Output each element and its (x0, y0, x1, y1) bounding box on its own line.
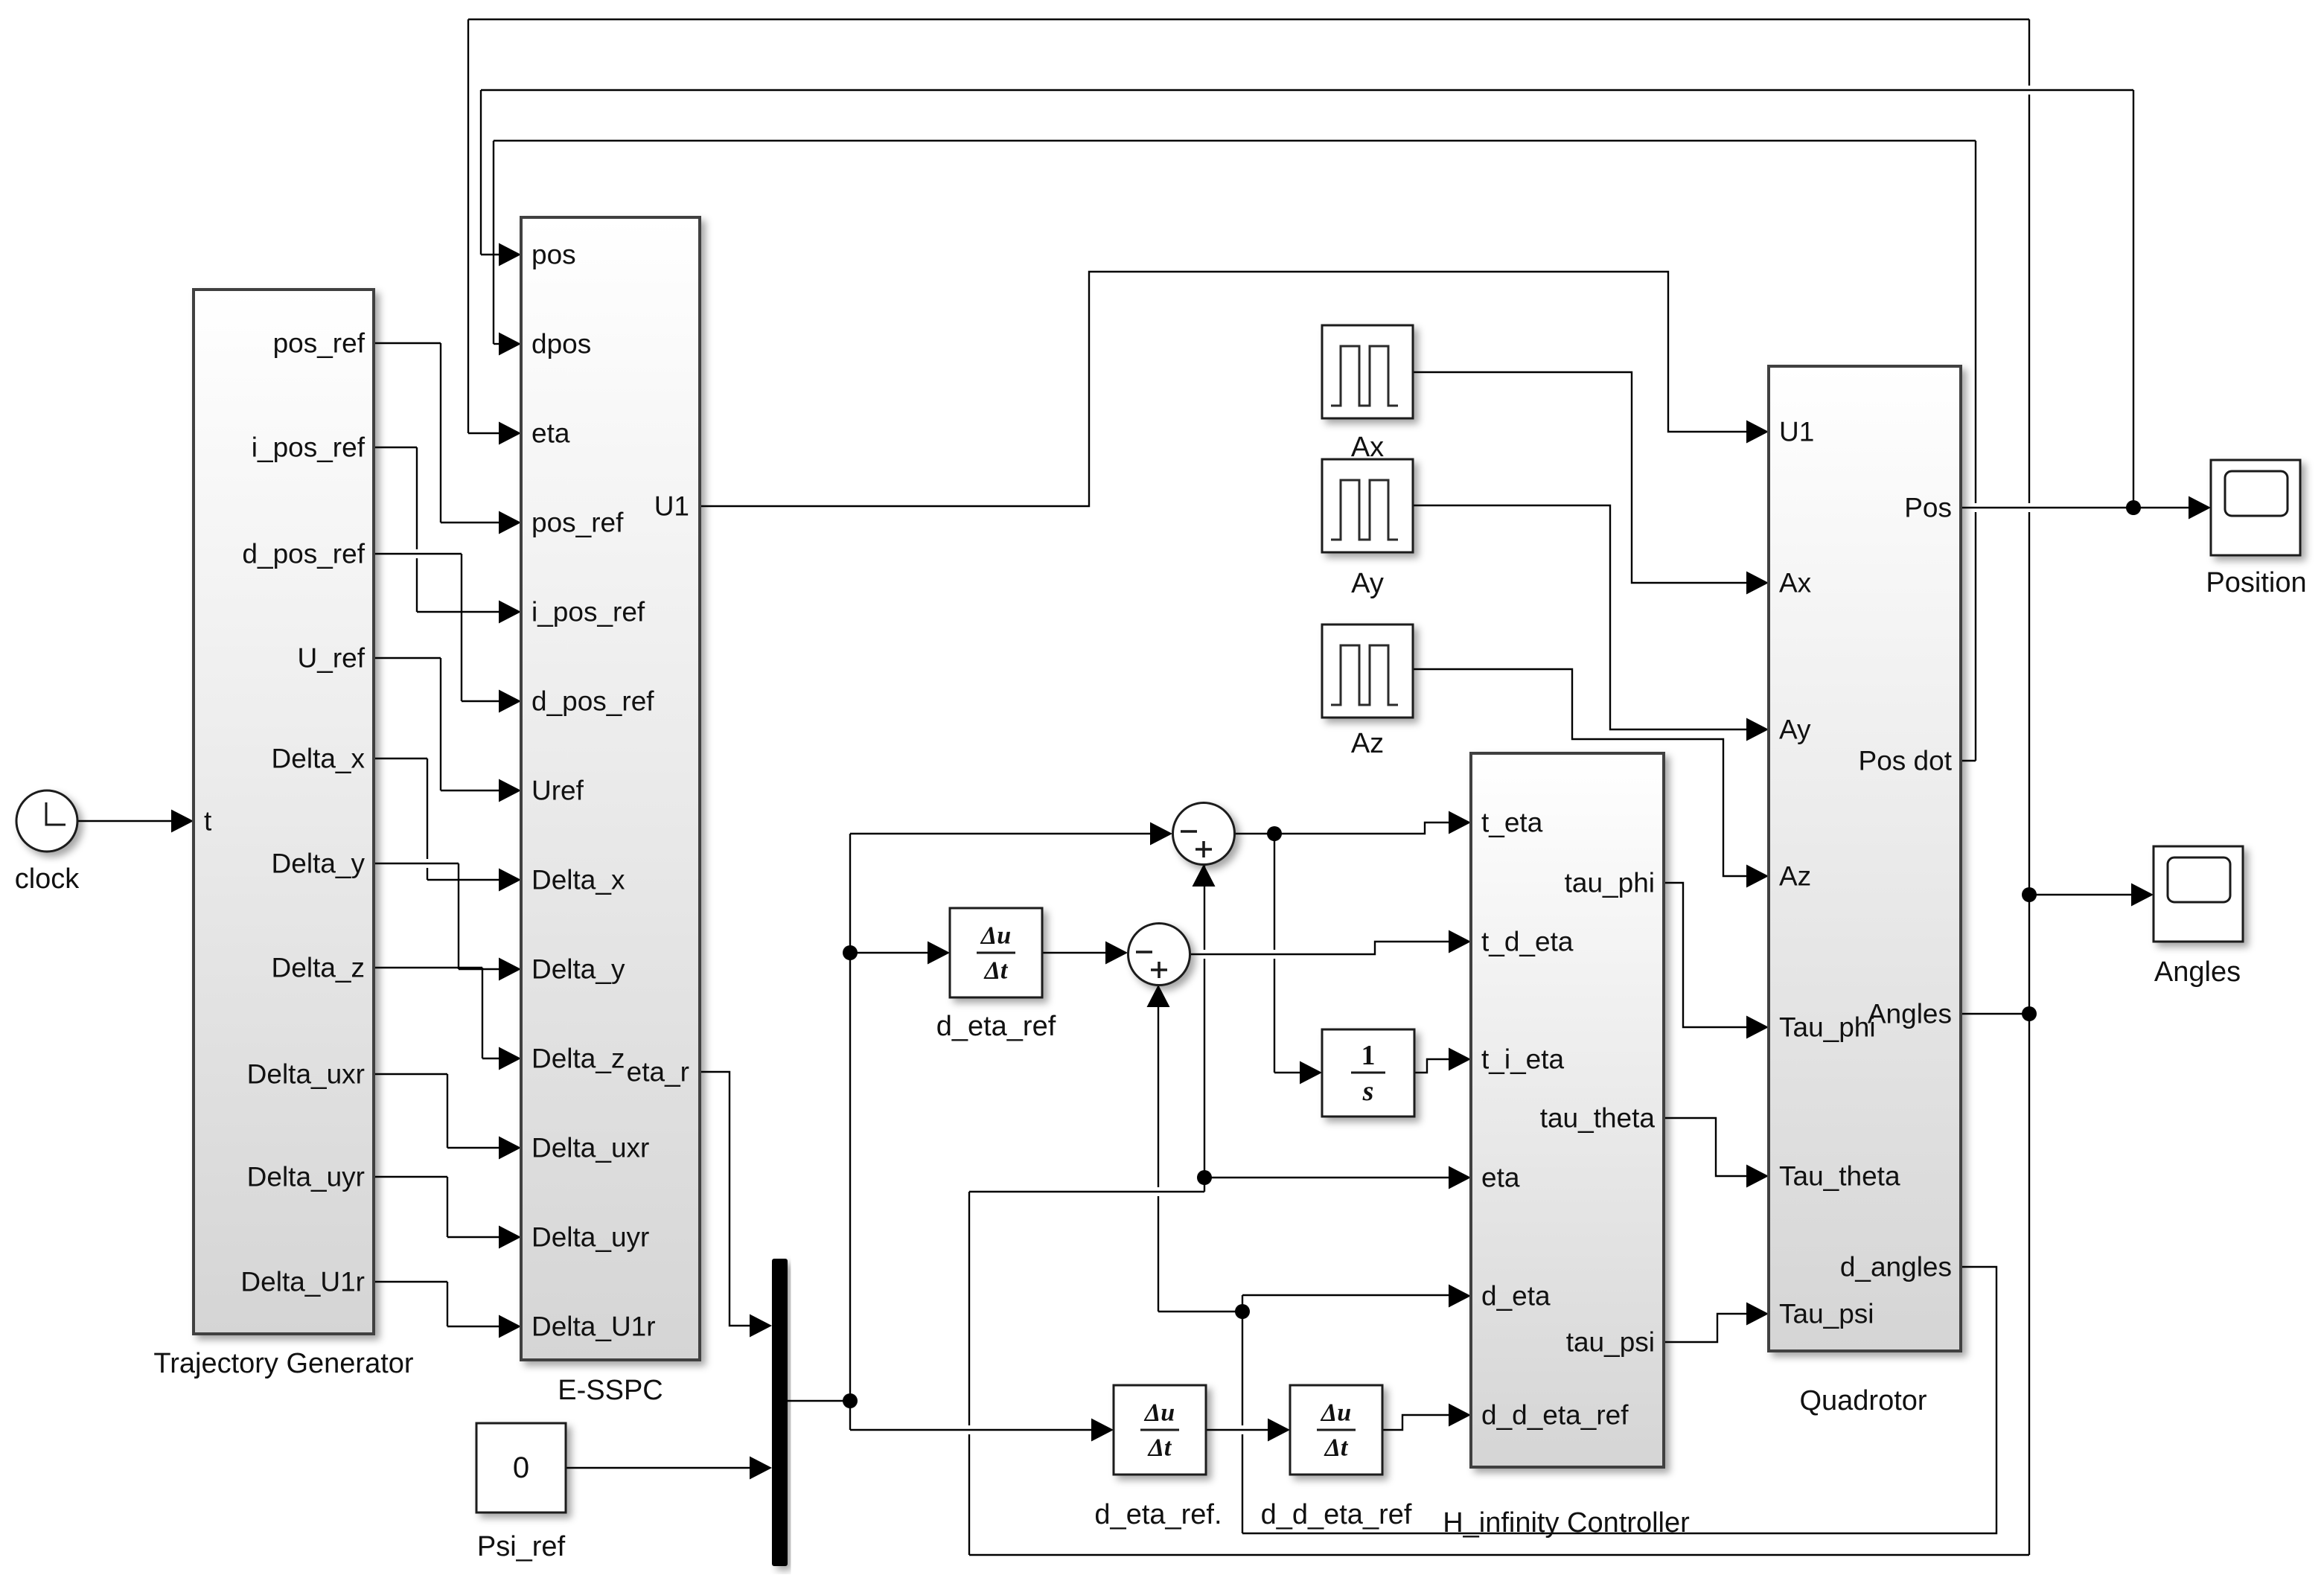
svg-text:Δu: Δu (980, 922, 1011, 950)
svg-text:Tau_theta: Tau_theta (1779, 1161, 1900, 1192)
svg-text:t: t (204, 806, 212, 837)
svg-text:d_eta_ref: d_eta_ref (936, 1011, 1056, 1042)
svg-text:1: 1 (1361, 1040, 1376, 1071)
svg-text:dpos: dpos (531, 329, 591, 360)
svg-text:d_d_eta_ref: d_d_eta_ref (1261, 1499, 1412, 1530)
svg-text:tau_phi: tau_phi (1565, 868, 1655, 898)
svg-text:t_i_eta: t_i_eta (1481, 1044, 1565, 1075)
svg-text:d_eta_ref.: d_eta_ref. (1094, 1499, 1222, 1530)
svg-text:Delta_x: Delta_x (272, 744, 365, 774)
svg-text:Angles: Angles (1868, 999, 1952, 1029)
svg-text:Δt: Δt (983, 957, 1009, 985)
svg-text:U1: U1 (654, 491, 689, 522)
svg-text:Delta_x: Delta_x (531, 865, 625, 895)
svg-text:Quadrotor: Quadrotor (1799, 1385, 1926, 1416)
svg-text:Δu: Δu (1320, 1399, 1351, 1427)
svg-text:pos: pos (531, 240, 576, 270)
svg-text:pos_ref: pos_ref (531, 508, 624, 538)
svg-text:Uref: Uref (531, 776, 584, 806)
svg-text:Delta_y: Delta_y (272, 849, 365, 879)
svg-text:Δu: Δu (1143, 1399, 1175, 1427)
svg-text:Az: Az (1779, 861, 1811, 892)
svg-text:s: s (1362, 1076, 1374, 1107)
svg-text:Δt: Δt (1324, 1434, 1349, 1462)
svg-text:Delta_z: Delta_z (272, 953, 365, 983)
svg-text:Pos: Pos (1904, 493, 1952, 523)
svg-text:d_pos_ref: d_pos_ref (242, 539, 365, 569)
svg-text:t_eta: t_eta (1481, 808, 1543, 838)
svg-text:Angles: Angles (2154, 956, 2241, 988)
svg-text:tau_psi: tau_psi (1566, 1327, 1655, 1358)
svg-text:Pos dot: Pos dot (1859, 746, 1953, 776)
svg-text:Az: Az (1351, 728, 1384, 759)
svg-text:eta_r: eta_r (627, 1057, 689, 1087)
svg-text:E-SSPC: E-SSPC (558, 1375, 663, 1406)
svg-text:Delta_U1r: Delta_U1r (531, 1312, 656, 1342)
svg-text:Ax: Ax (1779, 568, 1812, 598)
svg-text:Delta_y: Delta_y (531, 954, 625, 985)
svg-text:0: 0 (513, 1451, 529, 1484)
svg-text:clock: clock (15, 863, 80, 895)
svg-text:Delta_uyr: Delta_uyr (531, 1222, 649, 1253)
svg-text:i_pos_ref: i_pos_ref (252, 432, 365, 463)
svg-text:d_angles: d_angles (1840, 1252, 1952, 1282)
svg-text:Delta_z: Delta_z (531, 1044, 625, 1074)
svg-text:Delta_U1r: Delta_U1r (240, 1267, 365, 1297)
svg-text:Position: Position (2206, 567, 2306, 598)
svg-text:Delta_uxr: Delta_uxr (247, 1059, 365, 1090)
svg-text:Delta_uxr: Delta_uxr (531, 1133, 649, 1163)
svg-text:U1: U1 (1779, 417, 1814, 447)
svg-text:eta: eta (531, 418, 570, 449)
svg-text:H_infinity Controller: H_infinity Controller (1443, 1507, 1690, 1539)
svg-text:d_eta: d_eta (1481, 1281, 1551, 1312)
svg-text:U_ref: U_ref (298, 643, 365, 674)
svg-text:Ay: Ay (1351, 568, 1384, 599)
svg-text:t_d_eta: t_d_eta (1481, 927, 1574, 957)
svg-text:d_d_eta_ref: d_d_eta_ref (1481, 1400, 1629, 1431)
svg-text:Psi_ref: Psi_ref (477, 1531, 566, 1562)
svg-text:pos_ref: pos_ref (273, 328, 365, 359)
svg-text:Tau_psi: Tau_psi (1779, 1299, 1874, 1329)
svg-text:Trajectory Generator: Trajectory Generator (153, 1348, 414, 1379)
svg-text:Delta_uyr: Delta_uyr (247, 1162, 365, 1192)
svg-text:d_pos_ref: d_pos_ref (531, 686, 654, 717)
svg-text:i_pos_ref: i_pos_ref (531, 597, 645, 627)
svg-text:eta: eta (1481, 1163, 1520, 1193)
svg-text:Tau_phi: Tau_phi (1779, 1012, 1876, 1043)
svg-text:Ay: Ay (1779, 715, 1811, 745)
svg-text:Δt: Δt (1147, 1434, 1172, 1462)
svg-text:Ax: Ax (1351, 432, 1384, 463)
svg-text:tau_theta: tau_theta (1540, 1103, 1656, 1134)
